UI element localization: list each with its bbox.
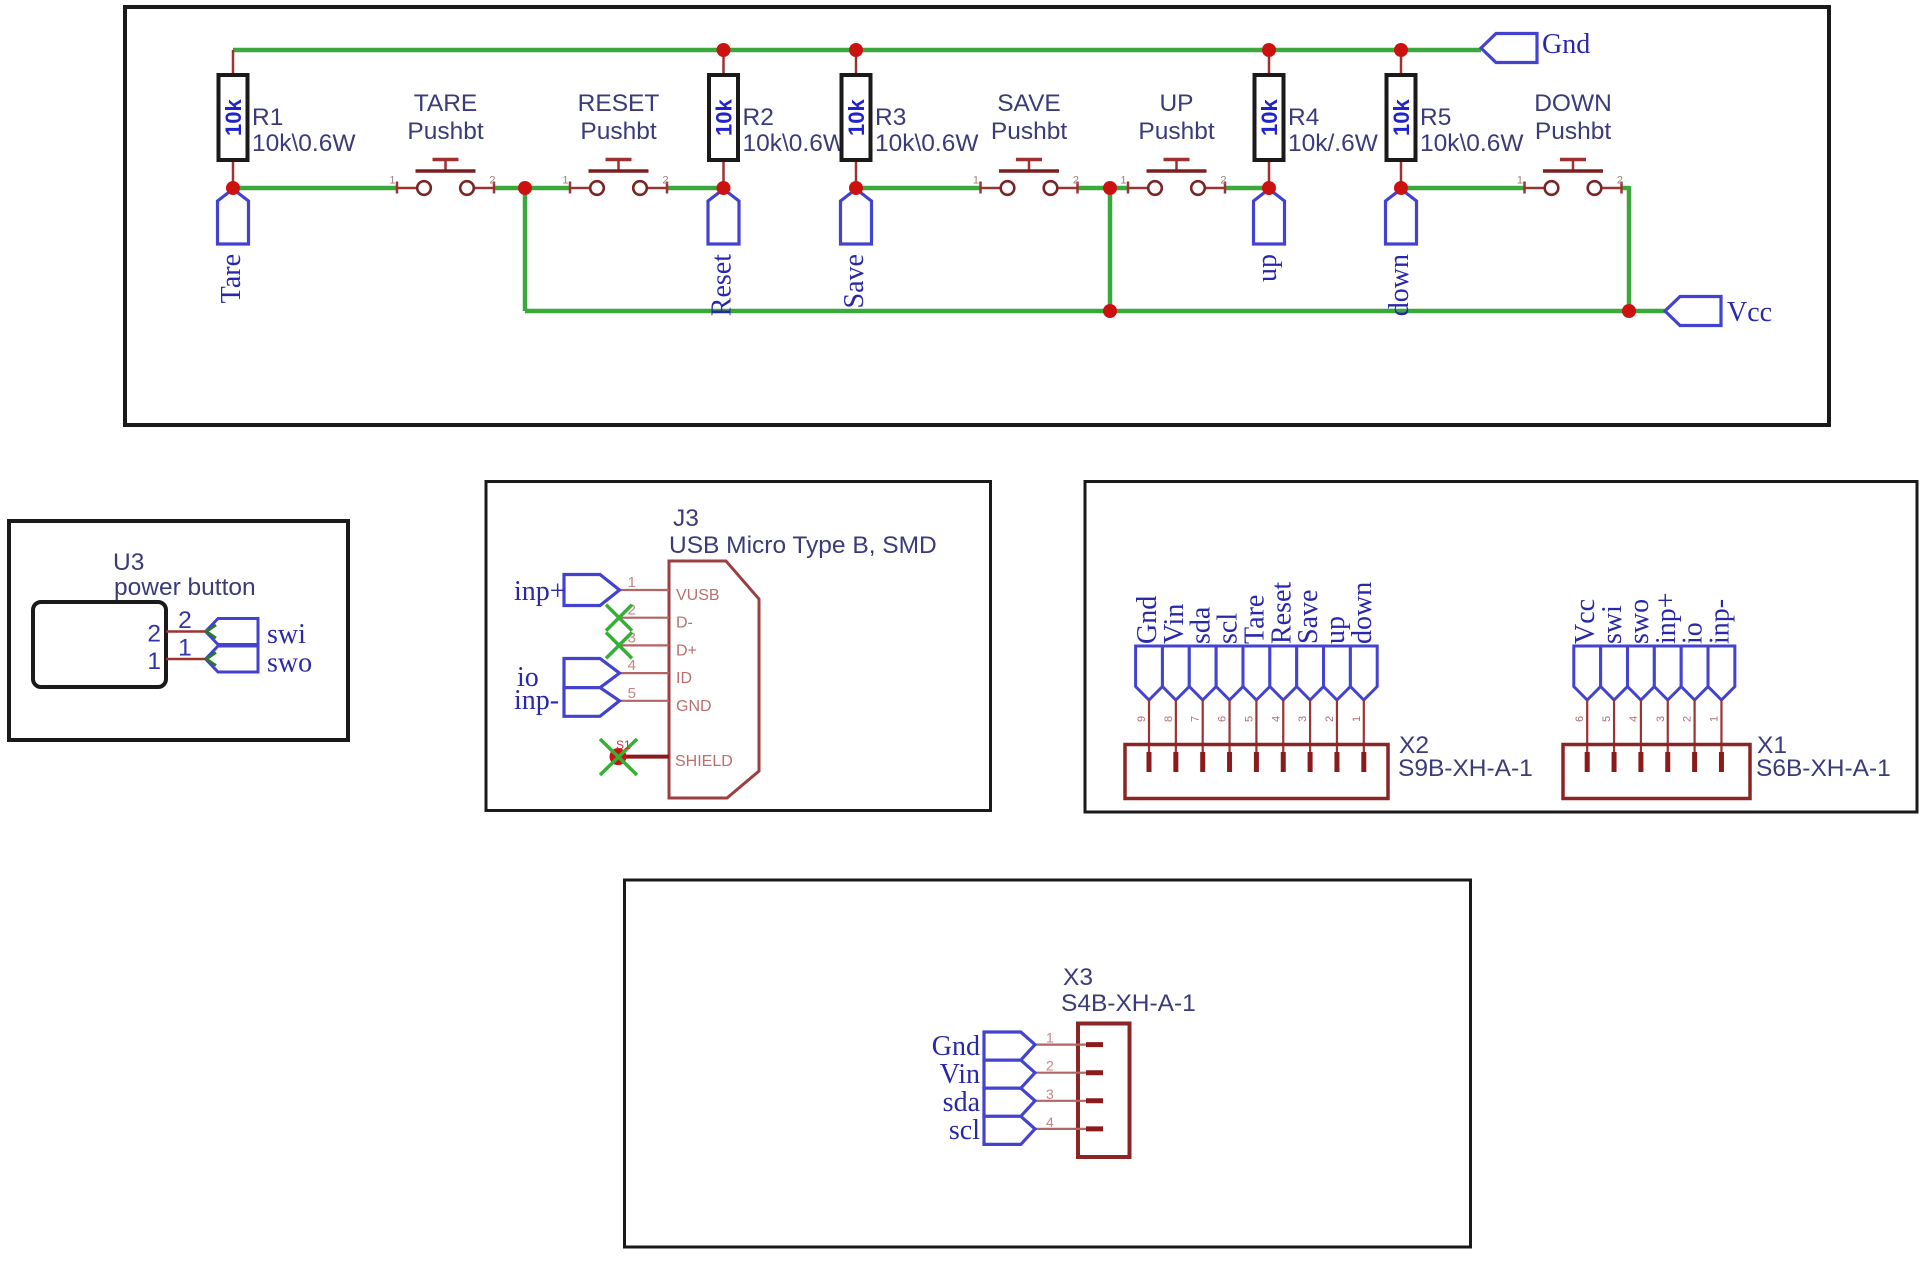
svg-text:GND: GND [676, 698, 712, 715]
svg-text:S6B-XH-A-1: S6B-XH-A-1 [1756, 755, 1891, 782]
svg-text:2: 2 [1073, 175, 1079, 187]
svg-text:S9B-XH-A-1: S9B-XH-A-1 [1398, 755, 1533, 782]
svg-text:S1: S1 [616, 738, 631, 752]
svg-text:Pushbt: Pushbt [580, 118, 656, 145]
svg-text:1: 1 [178, 635, 192, 662]
svg-text:Vcc: Vcc [1727, 297, 1772, 328]
svg-text:7: 7 [1190, 716, 1202, 722]
svg-text:swi: swi [267, 619, 306, 650]
svg-text:2: 2 [1046, 1058, 1054, 1074]
svg-text:2: 2 [1324, 716, 1336, 722]
svg-text:10k: 10k [1389, 99, 1414, 136]
svg-text:5: 5 [1243, 716, 1255, 722]
svg-text:SAVE: SAVE [997, 90, 1061, 117]
svg-text:9: 9 [1136, 716, 1148, 722]
svg-text:1: 1 [1708, 716, 1720, 722]
svg-text:3: 3 [1046, 1086, 1054, 1102]
svg-text:2: 2 [1220, 175, 1226, 187]
svg-text:10k\0.6W: 10k\0.6W [743, 130, 847, 157]
svg-text:10k\0.6W: 10k\0.6W [875, 130, 979, 157]
svg-text:R5: R5 [1420, 104, 1451, 131]
svg-text:Tare: Tare [216, 254, 247, 303]
svg-text:10k/.6W: 10k/.6W [1288, 130, 1379, 157]
svg-text:4: 4 [628, 657, 636, 674]
svg-text:2: 2 [662, 175, 668, 187]
svg-text:up: up [1252, 254, 1283, 282]
svg-text:2: 2 [147, 621, 161, 648]
svg-text:2: 2 [1682, 716, 1694, 722]
svg-text:10k: 10k [1257, 99, 1282, 136]
svg-text:R3: R3 [875, 104, 906, 131]
svg-text:ID: ID [676, 670, 692, 687]
svg-text:Reset: Reset [707, 254, 738, 316]
svg-text:Pushbt: Pushbt [1535, 118, 1611, 145]
svg-text:2: 2 [489, 175, 495, 187]
svg-text:4: 4 [1628, 716, 1640, 722]
svg-text:UP: UP [1159, 90, 1193, 117]
svg-text:U3: U3 [113, 549, 144, 576]
svg-text:RESET: RESET [578, 90, 660, 117]
svg-text:sda: sda [943, 1087, 981, 1118]
svg-text:Gnd: Gnd [1542, 29, 1590, 60]
svg-text:1: 1 [628, 574, 636, 591]
svg-text:Vin: Vin [940, 1059, 980, 1090]
svg-text:down: down [1347, 582, 1378, 644]
svg-text:TARE: TARE [414, 90, 478, 117]
svg-text:power button: power button [114, 574, 256, 601]
svg-text:3: 3 [1655, 716, 1667, 722]
svg-text:Pushbt: Pushbt [1138, 118, 1214, 145]
svg-text:1: 1 [562, 175, 568, 187]
svg-text:VUSB: VUSB [676, 587, 720, 604]
svg-text:R4: R4 [1288, 104, 1319, 131]
svg-text:6: 6 [1574, 716, 1586, 722]
svg-text:5: 5 [628, 685, 636, 702]
svg-text:USB Micro Type B, SMD: USB Micro Type B, SMD [669, 532, 937, 559]
svg-text:S4B-XH-A-1: S4B-XH-A-1 [1061, 990, 1196, 1017]
svg-text:8: 8 [1163, 716, 1175, 722]
svg-text:Save: Save [839, 254, 870, 308]
svg-text:2: 2 [178, 607, 192, 634]
svg-text:inp-: inp- [514, 685, 559, 716]
svg-text:1: 1 [1517, 175, 1523, 187]
svg-text:4: 4 [1270, 716, 1282, 722]
svg-text:Pushbt: Pushbt [991, 118, 1067, 145]
svg-text:10k: 10k [844, 99, 869, 136]
svg-text:SHIELD: SHIELD [675, 753, 733, 770]
svg-text:R2: R2 [743, 104, 774, 131]
svg-text:swo: swo [267, 648, 312, 679]
svg-text:scl: scl [949, 1115, 980, 1146]
svg-text:D+: D+ [676, 642, 697, 659]
svg-text:3: 3 [1297, 716, 1309, 722]
svg-text:D-: D- [676, 615, 693, 632]
svg-text:inp+: inp+ [514, 576, 566, 607]
svg-text:1: 1 [973, 175, 979, 187]
svg-text:1: 1 [1120, 175, 1126, 187]
svg-text:10k\0.6W: 10k\0.6W [1420, 130, 1524, 157]
svg-text:inp-: inp- [1704, 599, 1735, 644]
svg-text:1: 1 [147, 648, 161, 675]
svg-text:down: down [1384, 254, 1415, 316]
svg-text:10k\0.6W: 10k\0.6W [252, 130, 356, 157]
svg-text:1: 1 [1046, 1030, 1054, 1046]
svg-text:J3: J3 [673, 505, 699, 532]
svg-text:6: 6 [1217, 716, 1229, 722]
svg-text:1: 1 [389, 175, 395, 187]
svg-text:10k: 10k [221, 99, 246, 136]
svg-text:Pushbt: Pushbt [407, 118, 483, 145]
svg-text:Gnd: Gnd [932, 1031, 980, 1062]
svg-text:1: 1 [1351, 716, 1363, 722]
svg-text:4: 4 [1046, 1114, 1054, 1130]
svg-text:5: 5 [1601, 716, 1613, 722]
svg-text:10k: 10k [712, 99, 737, 136]
svg-text:2: 2 [1617, 175, 1623, 187]
svg-text:X3: X3 [1063, 964, 1093, 991]
svg-text:R1: R1 [252, 104, 283, 131]
svg-text:DOWN: DOWN [1534, 90, 1612, 117]
